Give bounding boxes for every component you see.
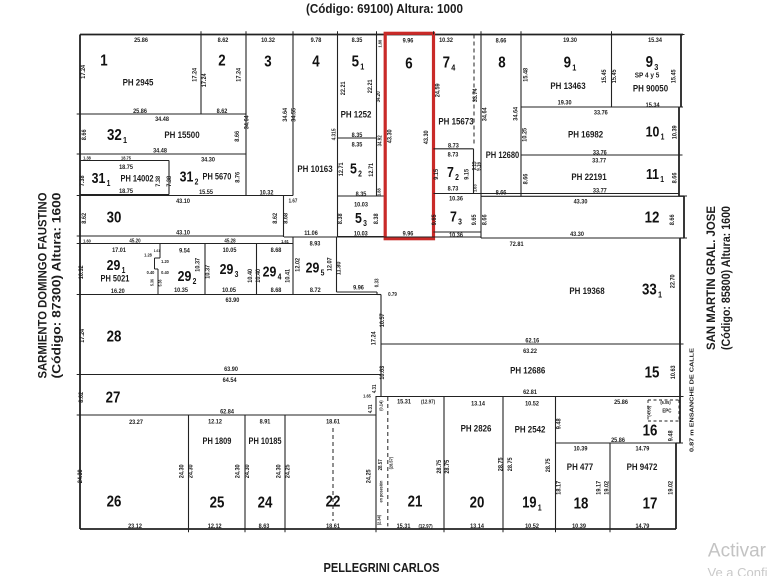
svg-text:(Código: 85800) Altura: 1600: (Código: 85800) Altura: 1600: [719, 206, 733, 350]
svg-text:63.22: 63.22: [523, 348, 537, 356]
svg-text:PH 16982: PH 16982: [568, 129, 603, 140]
svg-text:10.63: 10.63: [379, 365, 387, 379]
svg-text:0.40: 0.40: [147, 270, 155, 275]
svg-text:Activar: Activar: [708, 541, 767, 562]
lot 20 PH 2826: [443, 397, 445, 530]
svg-text:43.30: 43.30: [386, 129, 394, 143]
svg-text:10.36: 10.36: [449, 195, 463, 203]
svg-text:10.39: 10.39: [572, 522, 586, 530]
svg-text:4.31: 4.31: [372, 384, 378, 393]
svg-text:SAN MARTIN GRAL. JOSE: SAN MARTIN GRAL. JOSE: [704, 206, 718, 350]
dashed line right of 7-4: [473, 35, 475, 146]
lot 9-3 SP 4 y 5 PH 90050: [611, 35, 613, 108]
svg-text:9.15: 9.15: [463, 168, 471, 179]
svg-text:(6.05): (6.05): [660, 400, 671, 405]
svg-text:28.75: 28.75: [443, 459, 451, 473]
lot 19-1 PH 2542: [502, 397, 504, 530]
svg-text:28.75: 28.75: [497, 457, 505, 471]
zigzag boundary 29-1/29-2: [159, 244, 161, 259]
svg-text:4.315: 4.315: [331, 128, 337, 140]
svg-text:4.31: 4.31: [368, 404, 374, 413]
svg-text:PH 10163: PH 10163: [297, 163, 332, 174]
svg-text:PH 1252: PH 1252: [341, 109, 372, 120]
svg-text:8.76: 8.76: [234, 171, 242, 182]
svg-text:1.63: 1.63: [472, 184, 477, 192]
svg-text:22.21: 22.21: [366, 79, 374, 93]
svg-text:PH 15673: PH 15673: [438, 116, 473, 127]
svg-text:10.39: 10.39: [574, 445, 588, 453]
svg-text:17.24: 17.24: [79, 328, 87, 342]
lot 5-1 PH 1252: [337, 35, 339, 237]
svg-text:15: 15: [645, 365, 660, 382]
lot 1: [200, 35, 202, 115]
svg-text:10.40: 10.40: [247, 268, 255, 282]
svg-text:PH 2945: PH 2945: [123, 77, 154, 88]
svg-text:0.87 m ENSANCHE DE CALLE: 0.87 m ENSANCHE DE CALLE: [689, 347, 695, 452]
svg-text:34.48: 34.48: [153, 147, 167, 155]
svg-text:22.70: 22.70: [669, 274, 677, 288]
svg-text:17: 17: [643, 496, 658, 513]
svg-text:15.34: 15.34: [646, 101, 660, 109]
svg-text:12.71: 12.71: [368, 162, 376, 176]
svg-text:34.64: 34.64: [512, 106, 520, 120]
svg-text:10.57: 10.57: [378, 313, 386, 327]
svg-text:18.61: 18.61: [326, 418, 340, 426]
svg-text:28.75: 28.75: [507, 457, 515, 471]
svg-text:10.03: 10.03: [354, 201, 368, 209]
svg-text:34.30: 34.30: [201, 156, 215, 164]
svg-text:72.81: 72.81: [510, 241, 524, 249]
svg-text:EPC: EPC: [662, 408, 672, 414]
svg-text:13.14: 13.14: [470, 522, 484, 530]
svg-text:PH 2826: PH 2826: [461, 423, 492, 434]
svg-text:PELLEGRINI CARLOS: PELLEGRINI CARLOS: [324, 561, 440, 575]
svg-text:23.27: 23.27: [129, 418, 143, 426]
lot 16 EPC: [555, 397, 557, 530]
svg-text:25: 25: [210, 495, 225, 512]
svg-text:16: 16: [643, 423, 658, 440]
lot 21 dashed boundary: [387, 397, 389, 526]
svg-text:PH 1809: PH 1809: [203, 437, 232, 447]
svg-text:33.76: 33.76: [593, 149, 607, 157]
svg-text:15.45: 15.45: [601, 69, 609, 83]
svg-text:19.02: 19.02: [603, 480, 611, 494]
svg-text:PH 5670: PH 5670: [203, 172, 232, 182]
svg-text:10.05: 10.05: [222, 286, 236, 294]
svg-text:33.77: 33.77: [592, 157, 606, 165]
svg-text:10.25: 10.25: [521, 127, 529, 141]
svg-text:10.32: 10.32: [261, 36, 275, 44]
svg-text:10.40: 10.40: [255, 268, 263, 282]
svg-text:18.17: 18.17: [555, 480, 563, 494]
svg-text:6: 6: [405, 56, 412, 73]
svg-text:28.57: 28.57: [378, 459, 384, 470]
svg-text:20: 20: [470, 495, 485, 512]
svg-text:8.73: 8.73: [448, 185, 459, 193]
svg-text:10.32: 10.32: [439, 36, 453, 44]
svg-text:34.20: 34.20: [376, 91, 382, 102]
svg-text:33.77: 33.77: [593, 187, 607, 195]
svg-text:17.24: 17.24: [201, 73, 209, 87]
svg-text:3: 3: [264, 54, 271, 71]
tick marks left edge: [77, 113, 80, 115]
svg-text:(Código: 87300) Altura: 1600: (Código: 87300) Altura: 1600: [50, 192, 64, 378]
svg-text:62.81: 62.81: [523, 389, 537, 397]
svg-text:0.79: 0.79: [388, 292, 397, 298]
svg-text:8.35: 8.35: [352, 131, 363, 139]
svg-text:17.01: 17.01: [112, 246, 126, 254]
svg-text:10.52: 10.52: [525, 522, 539, 530]
svg-text:8.66: 8.66: [522, 173, 530, 184]
svg-text:34.55: 34.55: [290, 107, 298, 121]
svg-text:24.25: 24.25: [284, 464, 292, 478]
lot 30: [80, 195, 293, 197]
svg-text:1.20: 1.20: [161, 259, 169, 264]
svg-text:15.45: 15.45: [670, 69, 678, 83]
svg-text:PH 12680: PH 12680: [486, 151, 520, 161]
72.81 line under lots 5-12: [284, 236, 481, 238]
svg-text:43.10: 43.10: [176, 198, 190, 206]
svg-text:PH 90050: PH 90050: [633, 83, 668, 94]
svg-text:27: 27: [106, 390, 121, 407]
svg-text:34.64: 34.64: [243, 115, 251, 129]
lot 6 red highlight box: [385, 33, 433, 238]
svg-text:10.37: 10.37: [204, 264, 212, 278]
svg-text:9.96: 9.96: [353, 284, 364, 292]
tick marks right edge: [681, 34, 685, 36]
svg-text:(0.14): (0.14): [378, 400, 383, 411]
svg-text:8.35: 8.35: [352, 36, 363, 44]
svg-text:12.02: 12.02: [294, 257, 302, 271]
svg-text:24.30: 24.30: [187, 464, 195, 478]
svg-text:9.65: 9.65: [431, 214, 439, 225]
svg-text:5.36: 5.36: [157, 279, 162, 287]
svg-text:15.34: 15.34: [648, 36, 662, 44]
svg-text:8: 8: [498, 55, 505, 72]
lot 3: [245, 35, 247, 197]
svg-text:8.66: 8.66: [496, 37, 507, 45]
svg-text:PH 19368: PH 19368: [569, 285, 604, 296]
svg-text:0.33: 0.33: [374, 278, 380, 287]
svg-text:8.62: 8.62: [78, 391, 86, 402]
svg-text:25.86: 25.86: [133, 107, 147, 115]
svg-text:43.10: 43.10: [176, 229, 190, 237]
svg-text:30: 30: [107, 210, 122, 227]
svg-text:7.38: 7.38: [79, 175, 87, 186]
svg-text:9.54: 9.54: [179, 247, 190, 255]
svg-text:1: 1: [100, 53, 107, 70]
svg-text:8.66: 8.66: [234, 130, 242, 141]
tick marks bottom edge: [188, 529, 190, 532]
svg-text:8.66: 8.66: [481, 214, 489, 225]
lot 9-1 PH 13463: [520, 35, 522, 197]
svg-text:14.79: 14.79: [635, 445, 649, 453]
svg-text:62.16: 62.16: [525, 337, 539, 345]
svg-text:34.64: 34.64: [282, 107, 290, 121]
svg-text:8.91: 8.91: [260, 418, 271, 426]
svg-text:24.30: 24.30: [275, 464, 283, 478]
svg-text:1.65: 1.65: [363, 393, 371, 398]
lot 4 PH 10163: [292, 35, 294, 196]
svg-text:17.24: 17.24: [235, 67, 243, 81]
svg-text:15.55: 15.55: [199, 188, 213, 196]
svg-text:24.30: 24.30: [178, 464, 186, 478]
svg-text:10.37: 10.37: [194, 257, 202, 271]
svg-text:(4.05): (4.05): [646, 405, 651, 416]
svg-text:8.72: 8.72: [310, 286, 321, 294]
block outer boundary top: [80, 34, 683, 36]
svg-text:8.62: 8.62: [217, 107, 228, 115]
EPC dashed box: [648, 399, 679, 401]
svg-text:9.96: 9.96: [403, 37, 414, 45]
svg-text:1.88: 1.88: [376, 188, 381, 196]
svg-text:PH 13463: PH 13463: [550, 80, 585, 91]
svg-text:43.30: 43.30: [574, 198, 588, 206]
svg-text:10.52: 10.52: [525, 400, 539, 408]
svg-text:2: 2: [218, 53, 225, 70]
svg-text:1.60: 1.60: [83, 238, 91, 243]
svg-text:(12.97): (12.97): [421, 399, 435, 405]
svg-text:15.48: 15.48: [522, 67, 530, 81]
svg-text:18.75: 18.75: [121, 155, 131, 160]
line under 29 row: [80, 294, 377, 296]
svg-text:1.61: 1.61: [154, 249, 161, 253]
svg-text:19.17: 19.17: [595, 480, 603, 494]
svg-text:24.30: 24.30: [77, 469, 85, 483]
lot 7-2: [434, 148, 474, 150]
svg-text:8.66: 8.66: [669, 214, 677, 225]
svg-text:8.68: 8.68: [271, 246, 282, 254]
svg-text:17.24: 17.24: [370, 331, 378, 345]
svg-text:9.78: 9.78: [311, 36, 322, 44]
svg-text:(12.97): (12.97): [418, 524, 432, 530]
svg-text:PH 10185: PH 10185: [248, 437, 281, 447]
svg-text:9.48: 9.48: [555, 418, 563, 429]
svg-text:28.75: 28.75: [435, 459, 443, 473]
svg-text:9.48: 9.48: [667, 430, 675, 441]
svg-text:34.92: 34.92: [377, 135, 383, 146]
svg-text:1.88: 1.88: [377, 39, 382, 47]
svg-text:7.38: 7.38: [155, 175, 163, 186]
svg-text:SARMIENTO DOMINGO FAUSTINO: SARMIENTO DOMINGO FAUSTINO: [36, 193, 50, 379]
svg-text:10.05: 10.05: [223, 246, 237, 254]
svg-text:10.32: 10.32: [78, 265, 86, 279]
svg-text:24.59: 24.59: [434, 83, 442, 97]
svg-text:8.35: 8.35: [352, 141, 363, 149]
svg-text:17.24: 17.24: [80, 64, 88, 78]
svg-text:9.15: 9.15: [433, 168, 441, 179]
svg-text:8.38: 8.38: [373, 213, 381, 224]
svg-text:10.35: 10.35: [174, 286, 188, 294]
svg-text:13.14: 13.14: [471, 400, 485, 408]
svg-text:4: 4: [312, 54, 320, 71]
svg-text:15.31: 15.31: [397, 398, 411, 406]
svg-text:8.66: 8.66: [671, 172, 679, 183]
svg-text:28: 28: [107, 329, 122, 346]
svg-text:5.36: 5.36: [149, 278, 154, 286]
svg-text:15.45: 15.45: [611, 69, 619, 83]
svg-text:8.62: 8.62: [81, 212, 89, 223]
svg-text:12.12: 12.12: [208, 418, 222, 426]
svg-text:Ve a Confi: Ve a Confi: [708, 565, 768, 576]
svg-text:8.62: 8.62: [218, 36, 229, 44]
svg-text:63.90: 63.90: [225, 297, 239, 305]
svg-text:(2.34): (2.34): [376, 514, 381, 525]
svg-text:SP 4 y 5: SP 4 y 5: [635, 71, 660, 80]
svg-text:PH 2542: PH 2542: [515, 424, 546, 435]
svg-text:24.30: 24.30: [234, 464, 242, 478]
svg-text:28.75: 28.75: [545, 458, 553, 472]
svg-text:(Código: 69100) Altura: 1000: (Código: 69100) Altura: 1000: [306, 2, 463, 16]
svg-text:24: 24: [258, 495, 274, 512]
svg-text:12: 12: [645, 210, 660, 227]
svg-text:8.93: 8.93: [310, 240, 321, 248]
svg-text:10.63: 10.63: [670, 365, 678, 379]
svg-text:43.30: 43.30: [570, 230, 584, 238]
svg-text:34.48: 34.48: [155, 115, 169, 123]
step 9.96 right of 29-5: [337, 291, 378, 293]
svg-text:25.86: 25.86: [611, 436, 625, 444]
svg-text:25.86: 25.86: [134, 36, 148, 44]
svg-text:8.68: 8.68: [271, 286, 282, 294]
svg-text:17.24: 17.24: [191, 67, 199, 81]
svg-text:1.38: 1.38: [83, 155, 91, 160]
svg-text:43.30: 43.30: [422, 130, 430, 144]
svg-text:0.40: 0.40: [161, 270, 169, 275]
svg-text:12.12: 12.12: [208, 522, 222, 530]
svg-text:33.74: 33.74: [472, 88, 480, 102]
svg-text:11.06: 11.06: [304, 229, 318, 237]
lot 5-2: [376, 35, 378, 197]
svg-text:(28.57): (28.57): [388, 456, 393, 469]
svg-text:63.90: 63.90: [224, 365, 238, 373]
svg-text:25.86: 25.86: [614, 398, 628, 406]
svg-text:8.63: 8.63: [259, 522, 270, 530]
svg-text:10.36: 10.36: [449, 231, 463, 239]
svg-text:8.73: 8.73: [448, 142, 459, 150]
svg-text:18: 18: [574, 496, 589, 513]
svg-text:PH 5021: PH 5021: [101, 274, 130, 284]
svg-text:33.76: 33.76: [594, 109, 608, 117]
svg-text:24.25: 24.25: [365, 469, 373, 483]
svg-text:12.07: 12.07: [326, 257, 334, 271]
svg-text:24.30: 24.30: [243, 464, 251, 478]
svg-text:21: 21: [408, 494, 423, 511]
svg-text:1.67: 1.67: [289, 198, 298, 204]
lot 8 PH 12680: [480, 35, 482, 239]
svg-text:62.84: 62.84: [220, 408, 234, 416]
svg-text:PH 22191: PH 22191: [571, 171, 606, 182]
svg-text:8.35: 8.35: [356, 190, 367, 198]
svg-text:19.30: 19.30: [558, 99, 572, 107]
svg-text:34.64: 34.64: [481, 107, 489, 121]
svg-text:19.02: 19.02: [667, 480, 675, 494]
svg-text:22.21: 22.21: [340, 81, 348, 95]
svg-text:PH 477: PH 477: [567, 462, 594, 473]
svg-text:15.31: 15.31: [397, 522, 411, 530]
svg-text:8.66: 8.66: [496, 189, 507, 197]
svg-text:10.39: 10.39: [671, 125, 679, 139]
svg-text:26: 26: [107, 494, 122, 511]
svg-text:PH 12686: PH 12686: [510, 365, 545, 376]
tick marks top edge: [200, 31, 202, 34]
svg-text:PH 15500: PH 15500: [164, 129, 199, 140]
svg-text:18.61: 18.61: [326, 522, 340, 530]
svg-text:12.71: 12.71: [338, 162, 346, 176]
svg-text:14.79: 14.79: [635, 522, 649, 530]
svg-text:8.62: 8.62: [272, 212, 280, 223]
svg-text:PH 14002: PH 14002: [120, 174, 153, 184]
svg-text:1.28: 1.28: [144, 252, 152, 257]
lot 6 black boundary: [384, 35, 386, 237]
block outer boundary bottom: [80, 528, 676, 530]
svg-text:10.41: 10.41: [284, 268, 292, 282]
svg-text:9.65: 9.65: [470, 214, 478, 225]
block outer boundary left: [79, 35, 81, 530]
svg-text:8.66: 8.66: [81, 129, 89, 140]
block outer boundary right segments: [680, 35, 682, 108]
svg-text:18.75: 18.75: [119, 163, 133, 171]
svg-text:18.75: 18.75: [119, 187, 133, 195]
svg-text:8.38: 8.38: [337, 213, 345, 224]
lot 33 / 15 boundary: [381, 343, 680, 345]
svg-text:23.12: 23.12: [128, 522, 142, 530]
svg-text:PH 9472: PH 9472: [627, 462, 658, 473]
svg-text:8.68: 8.68: [282, 212, 290, 223]
svg-text:16.20: 16.20: [111, 287, 125, 295]
svg-text:19.30: 19.30: [563, 36, 577, 44]
svg-text:en posesión: en posesión: [378, 480, 383, 502]
svg-text:64.54: 64.54: [223, 377, 237, 385]
svg-text:8.73: 8.73: [448, 151, 459, 159]
svg-text:11.80: 11.80: [335, 261, 343, 275]
